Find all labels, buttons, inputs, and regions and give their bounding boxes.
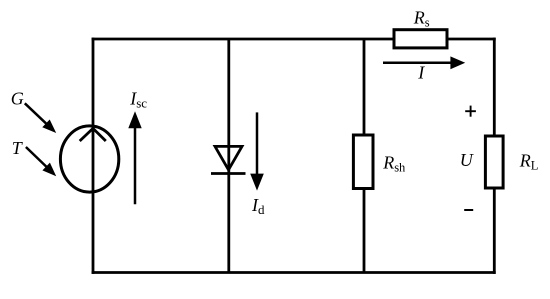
arrow I (load current) — [383, 56, 465, 69]
wire: diode branch — [227, 39, 230, 273]
diode cathode bar — [211, 172, 246, 175]
label + polarity — [465, 106, 476, 117]
arrow Isc (short-circuit current direction) — [128, 111, 141, 204]
wire: shunt branch — [363, 39, 366, 273]
arrow Id (diode current) — [250, 112, 264, 190]
current source (photocurrent source) — [60, 126, 118, 192]
resistor RL (load) — [485, 136, 503, 188]
svg-text:I: I — [417, 63, 425, 83]
wire: right branch — [493, 38, 496, 274]
resistor Rs (series) — [394, 30, 447, 48]
current source circle body — [60, 126, 118, 192]
wire: left branch — [92, 38, 95, 274]
current source arrow chevron (points up) — [80, 128, 106, 141]
wire: top bus — [92, 38, 496, 41]
svg-text:U: U — [460, 150, 474, 170]
arrow G input — [25, 103, 56, 133]
diode D — [211, 146, 246, 173]
wire: bottom bus — [92, 271, 496, 274]
svg-text:G: G — [11, 89, 24, 109]
arrow T input — [26, 147, 56, 176]
diode anode triangle — [215, 146, 242, 169]
resistor Rsh (shunt) — [353, 135, 373, 189]
label − polarity — [464, 209, 473, 211]
